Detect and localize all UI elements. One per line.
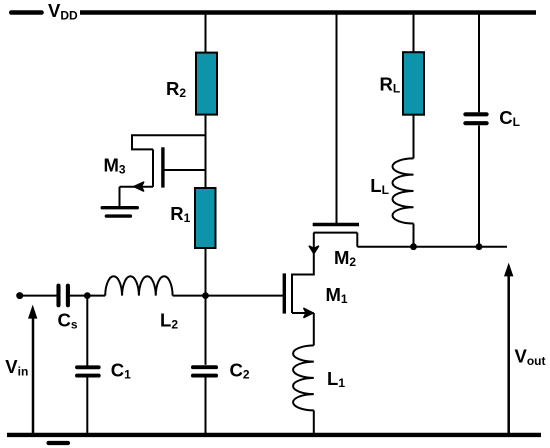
M3 gate wire	[163, 169, 206, 171]
wire VDD to R2	[205, 13, 207, 54]
M3 source arrow	[134, 182, 143, 191]
junction LL/output node	[410, 243, 417, 250]
resistor R2	[196, 53, 217, 115]
wire VDD to M2 gate	[336, 13, 338, 224]
M3 drain wire	[132, 135, 206, 149]
M1 source down wire	[313, 313, 315, 345]
wire R1 to node A	[205, 248, 207, 296]
wire RL to LL	[413, 115, 415, 159]
M3 source down wire	[119, 187, 121, 207]
ground tick below rail	[49, 441, 69, 445]
wire CL to output node	[478, 126, 480, 247]
M1 gate wire	[206, 295, 284, 297]
transistor M3 gate bar	[161, 147, 164, 187]
wire R2 to R1	[205, 116, 207, 188]
M2 source arrow	[309, 246, 318, 253]
inductor L2	[105, 276, 172, 295]
Vin arrow shaft	[32, 317, 35, 433]
junction node B (Cs/C1/L2)	[84, 292, 91, 299]
output wire	[357, 246, 507, 248]
wire C2 to ground rail	[205, 376, 207, 433]
M2 drain wire	[356, 233, 358, 247]
junction node A (R1/L2/C2/M1 gate)	[202, 292, 209, 299]
ground (M3 source)	[102, 206, 137, 209]
transistor M1 channel bar	[291, 274, 293, 313]
M1 drain wire	[291, 274, 314, 276]
transistor M2 channel bar	[314, 232, 358, 234]
resistor R1	[195, 188, 216, 248]
M2 source wire	[313, 233, 315, 276]
wire VDD to RL	[413, 13, 415, 54]
Vin arrowhead	[28, 305, 37, 319]
transistor M1 gate bar	[283, 273, 286, 313]
wire node A to C2	[205, 295, 207, 365]
M1 source wire	[292, 312, 314, 314]
capacitor Cs	[56, 286, 60, 306]
Vout arrowhead	[504, 263, 513, 277]
capacitor C1	[77, 365, 99, 369]
wire node B down to C1	[86, 296, 88, 366]
wire node B to L2	[87, 295, 105, 297]
capacitor C2	[193, 365, 216, 369]
wire VDD to CL	[478, 13, 480, 113]
VDD rail lead segment	[11, 10, 41, 15]
ground rail (bottom)	[7, 433, 541, 437]
wire C1 to ground rail	[86, 376, 88, 433]
transistor M2 gate bar	[313, 223, 359, 226]
capacitor CL	[465, 112, 486, 116]
wire L2 to node A	[173, 295, 207, 297]
input wire to Cs	[20, 295, 57, 297]
wire LL to output node	[413, 224, 415, 247]
M3 source wire	[120, 186, 154, 188]
Vout arrow shaft	[507, 274, 510, 433]
wire L1 to ground rail	[313, 410, 315, 433]
junction CL/output node	[476, 243, 483, 250]
inductor LL	[393, 158, 414, 223]
wire Cs to node B	[70, 295, 87, 297]
inductor L1	[293, 345, 314, 410]
input terminal dot	[16, 292, 23, 299]
transistor M3 channel bar	[152, 149, 154, 186]
resistor RL	[403, 52, 424, 114]
VDD rail	[80, 10, 536, 15]
M1 source arrow	[304, 309, 313, 318]
